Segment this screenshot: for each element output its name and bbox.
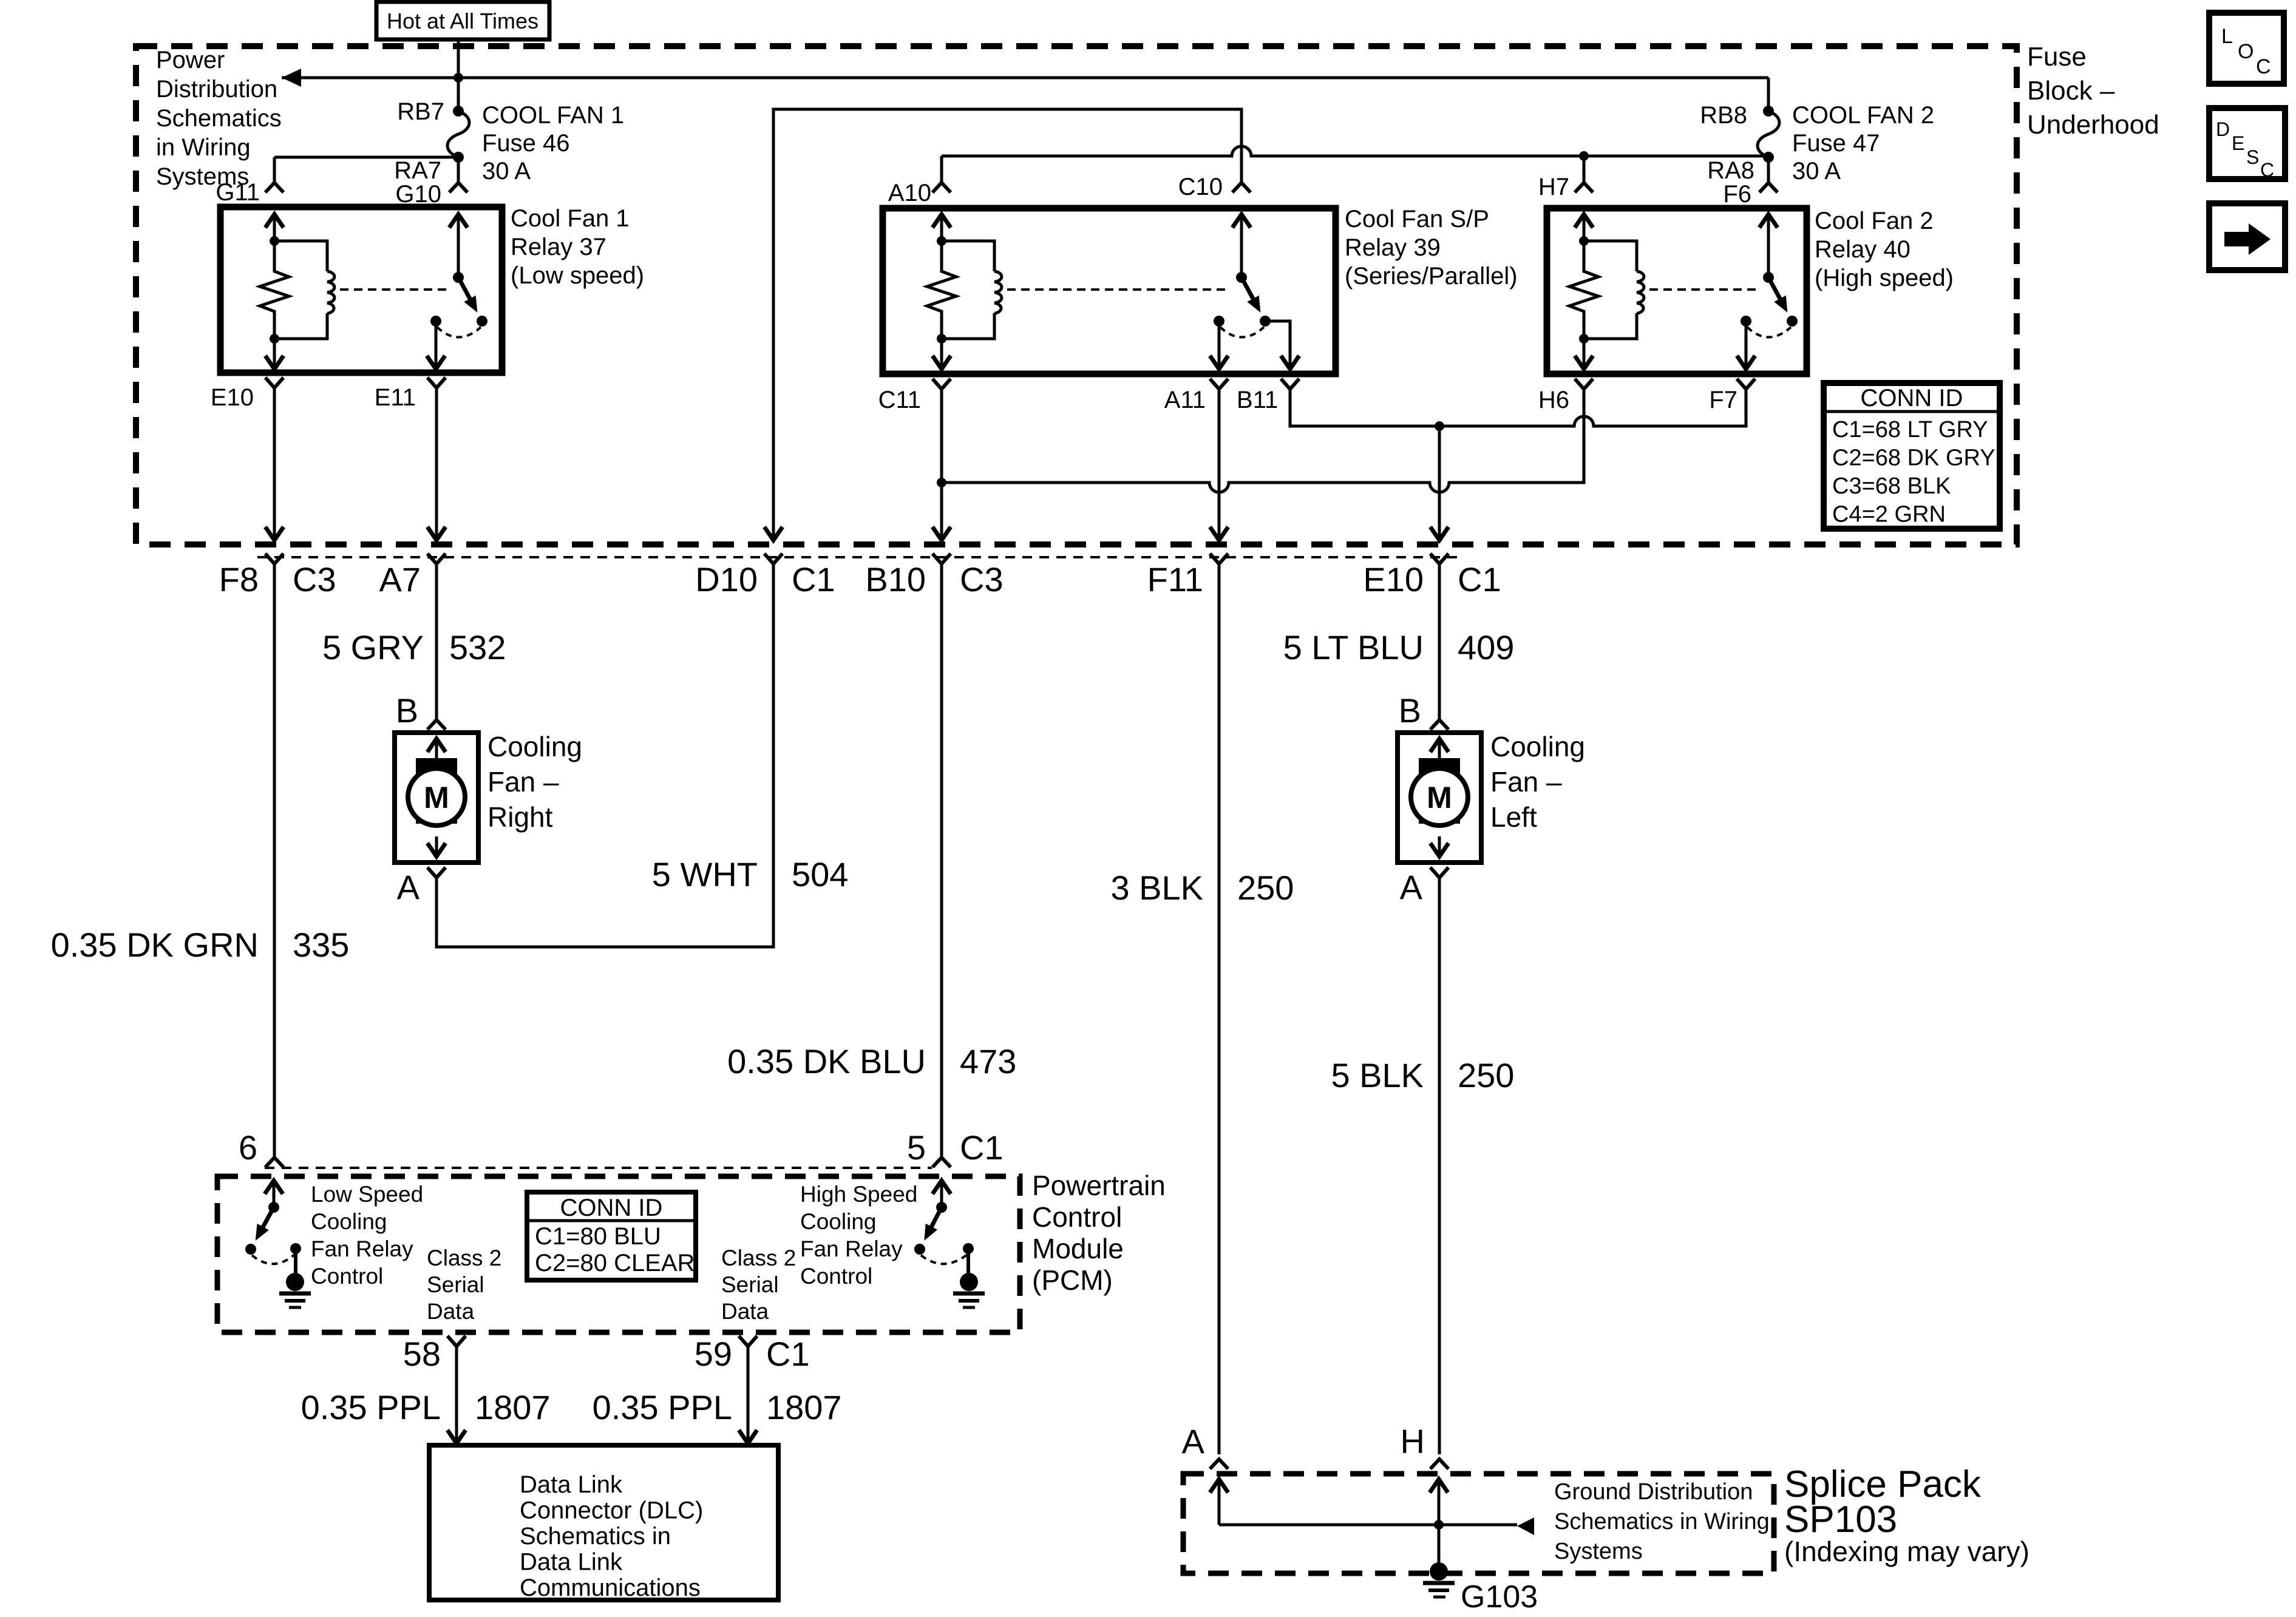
svg-text:Low Speed: Low Speed <box>311 1182 423 1207</box>
wire A7 to fan right <box>435 564 438 720</box>
connector fork at x=719 <box>427 554 446 564</box>
wire hot rail drop to fuse 47 <box>1767 78 1770 111</box>
relay K39 junction top <box>937 236 946 246</box>
wire E11 to fuse block edge <box>435 388 438 541</box>
svg-text:F7: F7 <box>1709 387 1737 413</box>
relay K37 coil-switch dashed link <box>340 288 447 291</box>
connector PCM pin 58 <box>447 1336 466 1346</box>
svg-text:(Low speed): (Low speed) <box>511 262 644 289</box>
wire E10 to fuse block edge <box>273 388 276 541</box>
motor M fan left box <box>1398 733 1481 863</box>
svg-text:A7: A7 <box>379 560 421 598</box>
svg-text:59: 59 <box>695 1335 732 1373</box>
svg-text:Powertrain: Powertrain <box>1032 1170 1166 1201</box>
svg-text:(PCM): (PCM) <box>1032 1264 1113 1296</box>
wire F6 drop <box>1767 157 1770 183</box>
motor fan left symbol <box>1419 758 1460 824</box>
svg-text:Class 2: Class 2 <box>721 1246 796 1270</box>
relay K37 pin arrow <box>265 214 284 228</box>
connector fork at x=2008 <box>1210 554 1228 564</box>
svg-text:Hot at All Times: Hot at All Times <box>387 8 538 33</box>
relay K39 junction bottom <box>937 334 946 344</box>
svg-text:Schematics in Wiring: Schematics in Wiring <box>1554 1509 1770 1534</box>
svg-text:0.35 DK BLU: 0.35 DK BLU <box>727 1042 926 1080</box>
svg-text:RA8: RA8 <box>1707 157 1754 184</box>
node RB7 <box>453 106 464 117</box>
wire C11 to fuse block edge <box>940 389 943 541</box>
svg-text:E: E <box>2232 132 2244 154</box>
svg-text:E10: E10 <box>1363 560 1424 598</box>
connector PCM pin 5 <box>932 1158 951 1167</box>
relay K40 switch contacts <box>1741 316 1751 327</box>
connector C11 <box>932 379 951 389</box>
svg-text:RA7: RA7 <box>394 157 441 184</box>
node hot rail junction <box>453 73 463 83</box>
svg-text:Communications: Communications <box>520 1575 701 1601</box>
PCM low speed pivot <box>268 1202 279 1213</box>
PCM high speed ground lead <box>966 1249 970 1275</box>
svg-text:Cooling: Cooling <box>1490 731 1585 762</box>
svg-text:5: 5 <box>907 1128 926 1167</box>
svg-text:RB7: RB7 <box>397 98 444 125</box>
svg-text:Fan –: Fan – <box>1490 766 1562 798</box>
svg-text:C3: C3 <box>960 560 1004 598</box>
svg-text:250: 250 <box>1458 1056 1514 1094</box>
motor fan right pin B arrow <box>427 739 446 752</box>
svg-text:L: L <box>2221 25 2233 48</box>
svg-text:Data Link: Data Link <box>520 1471 623 1498</box>
svg-text:5 BLK: 5 BLK <box>1331 1056 1424 1094</box>
wire B11 to F7 rail <box>1290 389 1746 426</box>
relay K37 switch contacts <box>430 316 441 327</box>
wire G10 drop <box>457 157 460 183</box>
svg-text:E10: E10 <box>211 384 254 411</box>
svg-text:C1: C1 <box>766 1335 810 1373</box>
legend box arrow <box>2209 203 2285 270</box>
ground PCM high speed <box>960 1273 978 1291</box>
relay K40 box Cool Fan 2 Relay 40 <box>1547 208 1807 374</box>
PCM high speed relay driver arrow <box>932 1181 951 1194</box>
relay K40 junction top <box>1579 236 1589 246</box>
connector fan left B <box>1430 720 1449 730</box>
PCM low speed throw arc <box>252 1255 294 1264</box>
relay K39 switch pin arrow <box>1232 214 1251 228</box>
node RB8 <box>1763 106 1774 117</box>
svg-text:O: O <box>2238 40 2254 63</box>
connector A10 <box>932 183 951 192</box>
svg-text:Fuse 47: Fuse 47 <box>1792 130 1880 157</box>
svg-text:High Speed: High Speed <box>800 1182 917 1207</box>
svg-text:1807: 1807 <box>766 1388 842 1426</box>
wire fuse 46 to G11 branch <box>274 156 458 159</box>
splice pack SP103 dashed box <box>1183 1474 1774 1573</box>
svg-text:C2=68 DK GRY: C2=68 DK GRY <box>1832 446 1995 471</box>
svg-text:C1: C1 <box>792 560 835 598</box>
svg-text:C: C <box>2256 55 2271 78</box>
svg-text:Data: Data <box>721 1299 769 1324</box>
relay K40 switch pin arrow <box>1759 214 1778 228</box>
connector PCM pin 6 <box>265 1158 284 1167</box>
wire C11 to H6 rail <box>942 389 1584 492</box>
relay K39 coil-switch dashed link <box>1007 288 1230 291</box>
relay K39 switch throw arc <box>1220 327 1264 337</box>
relay K40 coil-switch dashed link <box>1649 288 1757 291</box>
relay K37 resistor <box>260 241 289 339</box>
relay K37 switch throw arc <box>437 327 481 337</box>
splice A entry arrow <box>1210 1479 1228 1493</box>
svg-text:Data Link: Data Link <box>520 1549 623 1576</box>
svg-text:Power: Power <box>156 47 225 73</box>
svg-text:Right: Right <box>487 801 553 833</box>
svg-text:Cool Fan 1: Cool Fan 1 <box>511 205 630 232</box>
svg-text:C: C <box>2260 159 2274 181</box>
connector G11 <box>265 183 284 192</box>
node splice junction <box>1434 1520 1444 1530</box>
PCM low speed relay driver arrow <box>265 1181 283 1194</box>
wire H7 drop <box>1583 156 1586 183</box>
svg-text:Systems: Systems <box>1554 1539 1643 1564</box>
node H7 tee <box>1579 151 1589 161</box>
svg-text:Relay 37: Relay 37 <box>511 234 606 260</box>
relay K40 pin arrow <box>1575 214 1593 228</box>
svg-text:Left: Left <box>1490 801 1537 833</box>
PCM high speed pivot <box>936 1202 947 1213</box>
ground PCM low speed <box>286 1273 304 1291</box>
relay K37 coil output wire <box>273 339 276 370</box>
power label box Hot at All Times <box>376 2 549 39</box>
wire G11 drop <box>273 157 276 183</box>
wire splice to G103 <box>1438 1525 1441 1566</box>
svg-text:B: B <box>1399 691 1421 730</box>
relay K37 switch pivot <box>453 272 464 283</box>
node RA8 <box>1763 152 1774 163</box>
connector C10 <box>1232 183 1251 192</box>
svg-text:Underhood: Underhood <box>2027 110 2159 140</box>
PCM high speed arm <box>931 1207 942 1229</box>
svg-text:Fuse 46: Fuse 46 <box>482 130 570 157</box>
svg-text:Fuse: Fuse <box>2027 42 2087 72</box>
legend box LOC <box>2209 13 2284 84</box>
svg-text:M: M <box>424 781 449 815</box>
svg-text:H: H <box>1401 1422 1425 1460</box>
relay K40 switch output wire <box>1745 321 1748 370</box>
connector H6 <box>1575 379 1593 389</box>
svg-text:5 GRY: 5 GRY <box>322 628 424 666</box>
relay K40 junction bottom <box>1579 334 1589 344</box>
svg-text:H7: H7 <box>1538 174 1569 200</box>
PCM high speed throw arc <box>921 1255 967 1264</box>
svg-text:Cooling: Cooling <box>487 731 582 762</box>
wire E10 C1 to fuse block edge <box>1438 426 1441 541</box>
wire splice rail <box>1219 1524 1517 1527</box>
fuse block underhood dashed border <box>136 46 2017 544</box>
svg-text:3 BLK: 3 BLK <box>1110 869 1203 907</box>
connector fork at x=2371 <box>1430 554 1449 564</box>
connector E11 <box>427 378 446 388</box>
svg-text:F11: F11 <box>1147 560 1203 598</box>
svg-text:A11: A11 <box>1164 387 1206 413</box>
connector PCM pin 59 <box>739 1336 757 1346</box>
svg-text:Cool Fan S/P: Cool Fan S/P <box>1345 206 1489 232</box>
connector F7 <box>1737 379 1755 389</box>
connector B11 <box>1281 379 1299 389</box>
svg-text:C1=80 BLU: C1=80 BLU <box>535 1223 661 1250</box>
wire pin 58 to DLC <box>455 1346 458 1443</box>
svg-text:E11: E11 <box>375 384 416 411</box>
node RA7 <box>453 152 464 163</box>
PCM low speed ground lead <box>294 1249 297 1275</box>
wire A10 rail from fuse 47 <box>942 146 1768 156</box>
svg-text:0.35 DK GRN: 0.35 DK GRN <box>51 926 259 964</box>
svg-text:CONN ID: CONN ID <box>1861 385 1963 412</box>
svg-text:30 A: 30 A <box>1792 158 1841 185</box>
svg-text:C1=68 LT GRY: C1=68 LT GRY <box>1832 417 1988 442</box>
module PCM dashed box <box>217 1176 1020 1332</box>
relay K37 switch arm <box>458 277 471 301</box>
svg-text:C11: C11 <box>878 387 921 413</box>
box Data Link Connector DLC <box>429 1445 778 1600</box>
relay K39 coil output wire <box>940 339 943 370</box>
motor fan left pin B arrow <box>1430 739 1449 752</box>
svg-text:6: 6 <box>239 1128 257 1167</box>
wire F11 to splice pack A <box>1218 564 1221 1454</box>
connector fan right B <box>427 720 446 730</box>
svg-text:A: A <box>1400 868 1423 906</box>
svg-text:G10: G10 <box>395 181 441 208</box>
ground G103 symbol <box>1430 1562 1448 1581</box>
PCM low speed contacts <box>245 1244 256 1255</box>
splice H entry arrow <box>1430 1479 1448 1493</box>
relay K39 resistor <box>927 241 956 339</box>
svg-text:Serial: Serial <box>721 1272 779 1297</box>
connector fork at x=1274 <box>764 554 783 564</box>
svg-text:250: 250 <box>1237 869 1294 907</box>
svg-text:Fan Relay: Fan Relay <box>800 1236 903 1261</box>
svg-text:Distribution: Distribution <box>156 76 277 103</box>
svg-text:B10: B10 <box>865 560 926 598</box>
relay K39 switch arm <box>1241 277 1254 301</box>
connector A11 <box>1210 379 1228 389</box>
relay K37 box Cool Fan 1 Relay 37 <box>220 207 502 373</box>
svg-text:Control: Control <box>311 1264 383 1289</box>
svg-text:D: D <box>2216 118 2230 140</box>
relay K37 junction top <box>270 236 279 246</box>
svg-text:Data: Data <box>427 1299 475 1324</box>
arrow to ground distribution schematics <box>1517 1517 1534 1535</box>
svg-text:RB8: RB8 <box>1700 102 1747 129</box>
relay K37 junction bottom <box>270 334 279 344</box>
connector fork at x=452 <box>265 554 284 564</box>
wire hot to fuse 46 <box>457 78 460 111</box>
svg-text:58: 58 <box>403 1335 441 1373</box>
svg-text:C1: C1 <box>960 1128 1004 1167</box>
relay K39 switch output wire <box>1218 321 1221 370</box>
svg-text:Class 2: Class 2 <box>427 1246 501 1270</box>
connector H7 <box>1575 183 1593 192</box>
motor M fan right box <box>395 733 478 863</box>
svg-text:B: B <box>396 691 418 730</box>
svg-text:F8: F8 <box>219 560 259 598</box>
svg-text:0.35 PPL: 0.35 PPL <box>301 1388 441 1426</box>
motor fan right symbol <box>416 758 457 824</box>
svg-text:A10: A10 <box>888 180 931 206</box>
svg-text:Cooling: Cooling <box>800 1209 876 1234</box>
relay K39 switch contacts <box>1214 316 1224 327</box>
wire A10 drop <box>940 156 943 183</box>
svg-text:Schematics: Schematics <box>156 105 282 132</box>
svg-text:S: S <box>2246 146 2259 168</box>
svg-text:A: A <box>1182 1422 1205 1460</box>
connector F6 <box>1759 183 1778 192</box>
svg-text:COOL FAN 2: COOL FAN 2 <box>1792 102 1934 129</box>
svg-text:5 LT BLU: 5 LT BLU <box>1283 628 1424 666</box>
svg-text:Module: Module <box>1032 1233 1124 1264</box>
svg-text:SP103: SP103 <box>1784 1499 1897 1541</box>
wire fan left A to splice pack H <box>1438 878 1441 1454</box>
relay K40 switch throw arc <box>1747 327 1791 337</box>
relay K39 pin arrow <box>932 214 951 228</box>
legend box DESC <box>2209 108 2285 179</box>
svg-text:C4=2 GRN: C4=2 GRN <box>1832 502 1946 527</box>
connector G10 <box>449 183 467 192</box>
svg-text:Ground Distribution: Ground Distribution <box>1554 1479 1753 1505</box>
svg-text:A: A <box>397 868 420 906</box>
relay K40 coil output wire <box>1583 339 1586 370</box>
relay K37 switch pin arrow <box>449 214 467 228</box>
wire B10 to PCM pin 5 <box>940 564 943 1156</box>
svg-text:CONN ID: CONN ID <box>560 1195 663 1221</box>
wire hot feed <box>457 39 460 79</box>
svg-text:Control: Control <box>1032 1201 1122 1233</box>
svg-text:C3=68 BLK: C3=68 BLK <box>1832 473 1951 499</box>
table CONN ID PCM <box>527 1192 696 1280</box>
PCM low speed arm <box>262 1207 274 1229</box>
svg-text:COOL FAN 1: COOL FAN 1 <box>482 102 624 129</box>
wire D10 riser to C10 <box>773 109 1241 541</box>
svg-text:532: 532 <box>449 628 506 666</box>
svg-text:H6: H6 <box>1538 387 1569 413</box>
svg-text:335: 335 <box>293 926 349 964</box>
node C11 junction <box>937 478 946 487</box>
connector fork at x=1551 <box>932 554 951 564</box>
connector E10 <box>265 378 284 388</box>
relay K39 switch pivot <box>1236 272 1247 283</box>
PCM high speed contacts <box>914 1244 925 1255</box>
node E10 C1 tee <box>1435 421 1444 431</box>
inline connector dashed line C1/C3 <box>257 556 1457 558</box>
relay K39 coil <box>942 241 994 271</box>
svg-text:G103: G103 <box>1461 1579 1538 1615</box>
svg-text:409: 409 <box>1458 628 1514 666</box>
wire E10 C1 to fan left <box>1438 564 1441 720</box>
relay K40 coil <box>1584 241 1637 271</box>
svg-text:Relay 39: Relay 39 <box>1345 234 1441 261</box>
svg-text:30 A: 30 A <box>482 158 531 185</box>
svg-text:Serial: Serial <box>427 1272 484 1297</box>
svg-text:473: 473 <box>960 1042 1016 1080</box>
svg-text:504: 504 <box>792 855 848 893</box>
svg-text:Relay 40: Relay 40 <box>1815 236 1911 263</box>
svg-text:C3: C3 <box>293 560 336 598</box>
connector splice A <box>1210 1459 1228 1469</box>
svg-text:1807: 1807 <box>475 1388 551 1426</box>
arrow to power distribution schematics <box>282 69 301 87</box>
svg-text:5 WHT: 5 WHT <box>652 855 758 893</box>
svg-text:C2=80 CLEAR: C2=80 CLEAR <box>535 1250 695 1276</box>
svg-text:D10: D10 <box>695 560 758 598</box>
svg-text:Connector (DLC): Connector (DLC) <box>520 1497 703 1524</box>
connector splice H <box>1430 1459 1449 1469</box>
relay K39 switch NO output wire <box>1265 321 1290 370</box>
fuse F47 element <box>1758 111 1779 157</box>
wire pin 59 to DLC <box>747 1346 750 1443</box>
svg-text:C10: C10 <box>1178 174 1223 200</box>
fuse F46 element <box>447 111 469 157</box>
svg-text:Schematics in: Schematics in <box>520 1523 671 1550</box>
svg-text:Cooling: Cooling <box>311 1209 387 1234</box>
svg-text:C1: C1 <box>1458 560 1501 598</box>
wire hot rail to power distribution <box>282 76 1768 80</box>
svg-text:0.35 PPL: 0.35 PPL <box>593 1388 732 1426</box>
svg-text:Control: Control <box>800 1264 872 1289</box>
svg-text:Block –: Block – <box>2027 76 2115 106</box>
motor fan right pin A arrow <box>435 836 438 858</box>
svg-text:in Wiring: in Wiring <box>156 134 251 161</box>
table CONN ID fuse block <box>1824 383 2000 529</box>
svg-text:Fan –: Fan – <box>487 766 559 798</box>
svg-text:Cool Fan 2: Cool Fan 2 <box>1815 208 1934 234</box>
relay K40 switch arm <box>1768 277 1781 301</box>
wire A11 to fuse block edge <box>1218 389 1221 541</box>
relay K39 box Cool Fan S/P Relay 39 <box>883 208 1336 374</box>
svg-text:(High speed): (High speed) <box>1815 265 1954 291</box>
svg-text:B11: B11 <box>1237 387 1278 413</box>
svg-text:(Indexing may vary): (Indexing may vary) <box>1784 1536 2029 1567</box>
svg-text:M: M <box>1427 781 1452 815</box>
relay K37 switch output wire <box>435 321 438 370</box>
wire fan right A to D10 <box>436 564 773 947</box>
svg-text:F6: F6 <box>1723 181 1751 208</box>
inline connector dashed line C1 PCM <box>265 1167 932 1169</box>
connector fan right A <box>427 867 446 878</box>
svg-text:Fan Relay: Fan Relay <box>311 1236 413 1261</box>
connector fan left A <box>1430 867 1449 878</box>
svg-text:G11: G11 <box>216 179 260 206</box>
wire F8 to PCM pin 6 <box>273 564 276 1156</box>
motor fan left pin A arrow <box>1438 836 1441 858</box>
relay K37 coil <box>274 241 327 271</box>
svg-text:(Series/Parallel): (Series/Parallel) <box>1345 263 1518 290</box>
relay K40 switch pivot <box>1763 272 1774 283</box>
relay K40 resistor <box>1569 241 1598 339</box>
